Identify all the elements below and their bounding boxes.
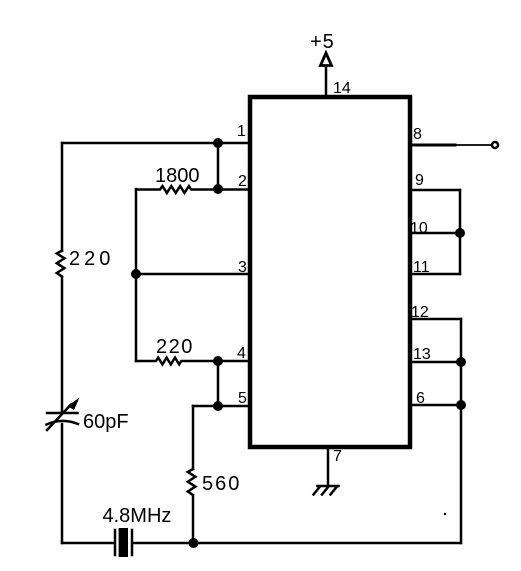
svg-text:7: 7 <box>333 448 342 465</box>
speck artifact <box>444 513 446 515</box>
svg-text:560: 560 <box>202 473 241 495</box>
svg-text:220: 220 <box>156 336 194 358</box>
IC U1 body <box>250 97 410 447</box>
resistor R 560 <box>188 469 196 495</box>
resistor R 220 (left rail) <box>57 251 65 277</box>
svg-text:5: 5 <box>238 390 247 407</box>
svg-text:4: 4 <box>237 345 246 362</box>
power +5 supply arrow <box>325 66 328 97</box>
wire pin13 <box>412 361 461 364</box>
node junction pin13 <box>456 357 466 367</box>
svg-text:13: 13 <box>413 346 431 363</box>
crystal Y1 4.8MHz left plate <box>114 530 117 555</box>
wire stub from pin4 node down to pin5 node <box>217 361 220 406</box>
svg-text:3: 3 <box>238 259 247 276</box>
wire pin5 horizontal <box>193 405 248 408</box>
capacitor C 60pF variable, top plate <box>47 412 78 415</box>
svg-text:4.8MHz: 4.8MHz <box>103 505 172 527</box>
node junction on pin3 wire <box>131 269 141 279</box>
node junction bottom wire / 560 resistor <box>189 538 199 548</box>
node junction pin5 wire <box>213 401 223 411</box>
svg-text:11: 11 <box>413 259 430 276</box>
svg-text:6: 6 <box>416 390 425 407</box>
wire pin6 <box>412 404 461 407</box>
capacitor C 60pF variable, bottom plate <box>47 421 79 425</box>
node junction pin2 wire <box>213 184 223 194</box>
svg-text:10: 10 <box>410 220 428 237</box>
capacitor C 60pF variable, arrow <box>47 405 71 431</box>
wire bracket joining pins 9-10-11 <box>459 190 462 274</box>
wire pin8 output <box>412 144 455 147</box>
wire left rail upper segment <box>61 143 64 251</box>
node junction pin6 <box>456 400 466 410</box>
wire pin10 <box>412 232 460 235</box>
svg-text:60pF: 60pF <box>83 411 129 433</box>
svg-text:2: 2 <box>238 173 247 190</box>
wire pin1 horizontal from left rail to IC pin 1 <box>62 142 248 145</box>
wire bottom left to crystal <box>62 542 114 545</box>
svg-text:8: 8 <box>413 126 422 143</box>
wire pin12 <box>412 318 461 321</box>
wire stub from pin1 node down to pin2 node <box>217 143 220 189</box>
wire left rail mid segment <box>61 278 64 412</box>
crystal Y1 4.8MHz body <box>119 528 128 557</box>
crystal Y1 4.8MHz right plate <box>131 530 134 555</box>
svg-text:12: 12 <box>411 304 429 321</box>
resistor R 1800 leads and zigzag <box>136 186 248 193</box>
wire left rail lower segment <box>61 424 64 543</box>
wire vertical branch x=136 from 1800 to 220 <box>135 189 138 361</box>
wire pin3 horizontal <box>136 273 248 276</box>
node junction pin10 <box>455 228 465 238</box>
svg-text:1800: 1800 <box>155 165 200 187</box>
wire pin7 ground stub <box>327 447 330 486</box>
svg-text:14: 14 <box>333 80 351 97</box>
resistor R 220 (pin4) leads and zigzag <box>136 358 248 365</box>
svg-text:220: 220 <box>69 248 114 270</box>
wire 560 branch upper <box>192 406 195 469</box>
node junction pin4 wire <box>213 356 223 366</box>
svg-text:+5: +5 <box>310 31 335 53</box>
ground chassis symbol <box>314 486 339 495</box>
wire pin11 <box>412 273 460 276</box>
wire right rail down from pin12 to bottom wire <box>460 319 463 543</box>
svg-text:1: 1 <box>237 123 246 140</box>
node junction on pin1 wire <box>213 138 223 148</box>
wire 560 branch lower <box>192 496 195 543</box>
terminal open circle output <box>492 142 498 148</box>
svg-text:9: 9 <box>415 172 424 189</box>
wire pin9 <box>412 189 460 192</box>
wire bottom from crystal to right rail <box>133 542 461 545</box>
